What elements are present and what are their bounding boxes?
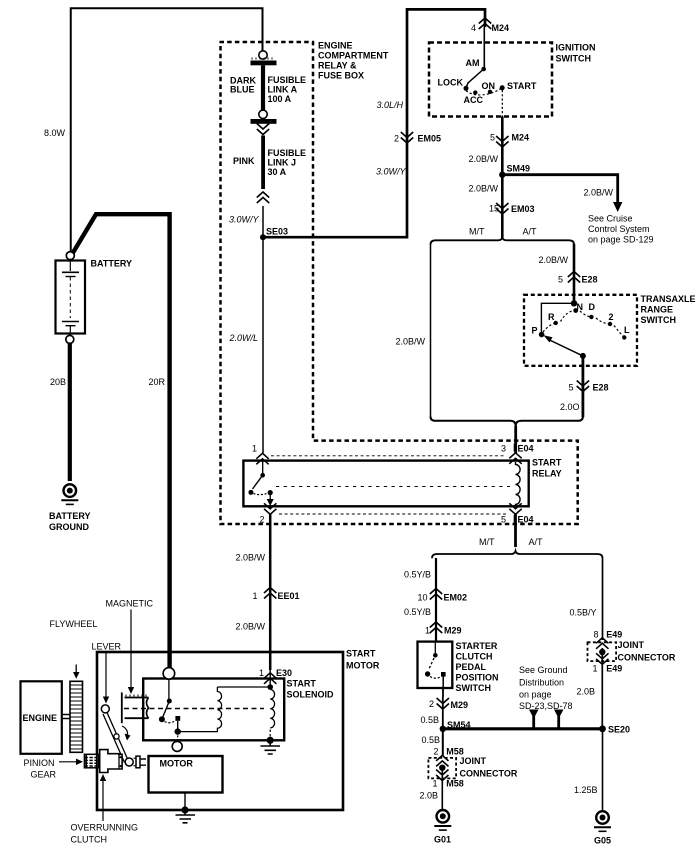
svg-text:R: R (548, 312, 555, 322)
svg-text:ENGINE: ENGINE (23, 713, 58, 723)
svg-text:3.0L/H: 3.0L/H (377, 100, 404, 110)
svg-text:POSITION: POSITION (456, 673, 499, 683)
svg-text:M29: M29 (451, 700, 469, 710)
svg-text:30 A: 30 A (268, 167, 287, 177)
svg-text:2.0O: 2.0O (560, 402, 580, 412)
svg-text:Control System: Control System (588, 224, 650, 234)
svg-text:RANGE: RANGE (641, 305, 674, 315)
wire SE03 to ignition feed (263, 9, 485, 237)
svg-text:0.5Y/B: 0.5Y/B (404, 570, 431, 580)
E04 connector dashed row bottom (279, 513, 506, 515)
svg-text:A/T: A/T (523, 227, 538, 237)
connector E04 pin 5 chevron (509, 503, 521, 514)
svg-text:GEAR: GEAR (31, 770, 57, 780)
svg-text:EM02: EM02 (444, 593, 468, 603)
svg-text:ENGINE: ENGINE (318, 41, 353, 51)
svg-text:FUSIBLE: FUSIBLE (268, 75, 307, 85)
pedal switch contacts (425, 642, 446, 688)
ground G01 (434, 810, 451, 830)
lever linkage (101, 705, 133, 766)
node SM49 (499, 172, 505, 178)
svg-text:20R: 20R (149, 377, 166, 387)
svg-text:START: START (346, 649, 376, 659)
wire SE20 to G05 1.25B (602, 729, 604, 812)
connector EE01 pin 1 (264, 588, 276, 599)
svg-text:5: 5 (490, 133, 495, 143)
svg-text:SWITCH: SWITCH (641, 315, 677, 325)
joint connector E49 dashed box (588, 642, 617, 661)
connector chevrons between links (257, 124, 269, 135)
wire pedal switch to M29 pin 2 (442, 688, 444, 729)
wire SM49 branch to cruise control (502, 175, 617, 203)
svg-text:1: 1 (253, 591, 258, 601)
svg-text:LINK A: LINK A (268, 85, 298, 95)
connector E28 pin 5 upper (568, 272, 580, 283)
svg-text:2.0B/W: 2.0B/W (584, 188, 614, 198)
start solenoid box (143, 679, 284, 741)
svg-text:A/T: A/T (529, 537, 544, 547)
svg-text:M/T: M/T (469, 227, 485, 237)
E04 connector dashed row top (271, 455, 506, 457)
svg-text:E04: E04 (518, 444, 534, 454)
transaxle range switch dashed box (524, 295, 637, 366)
wire A/T lower branch 0.5B/Y (602, 558, 604, 640)
M terminal circle (172, 741, 182, 751)
svg-text:MAGNETIC: MAGNETIC (106, 599, 154, 609)
svg-text:5: 5 (569, 383, 574, 393)
svg-text:EM05: EM05 (418, 134, 442, 144)
svg-text:START: START (532, 458, 562, 468)
svg-text:0.5B: 0.5B (422, 735, 441, 745)
engine compartment relay and fuse box dashed outline (220, 42, 578, 524)
clutch to motor coupling (134, 756, 147, 768)
svg-text:2.0B/W: 2.0B/W (539, 255, 569, 265)
svg-text:IGNITION: IGNITION (556, 43, 596, 53)
svg-text:RELAY &: RELAY & (318, 61, 357, 71)
connector E04 pin 3 chevron (509, 453, 521, 464)
svg-text:2: 2 (609, 312, 614, 322)
svg-text:M58: M58 (446, 747, 464, 757)
svg-text:Distribution: Distribution (519, 678, 564, 688)
B+ terminal circle (163, 668, 175, 680)
engine box (21, 681, 62, 754)
ground G05 (594, 811, 611, 831)
mechanical link plunger to coils dashed (124, 708, 264, 710)
svg-text:1: 1 (259, 668, 264, 678)
svg-text:E49: E49 (606, 664, 622, 674)
svg-text:2: 2 (429, 699, 434, 709)
svg-text:on page SD-129: on page SD-129 (588, 235, 654, 245)
svg-text:BATTERY: BATTERY (91, 259, 133, 269)
wire M/T branch 2.0B/W (430, 244, 432, 417)
svg-text:1: 1 (593, 664, 598, 674)
svg-text:G01: G01 (434, 835, 451, 845)
svg-text:ACC: ACC (464, 95, 484, 105)
svg-text:1.25B: 1.25B (574, 785, 598, 795)
motor box (149, 756, 223, 793)
svg-text:4: 4 (471, 23, 476, 33)
svg-text:L: L (624, 325, 630, 335)
svg-text:3: 3 (501, 444, 506, 454)
svg-text:SD-23,SD-78: SD-23,SD-78 (519, 701, 573, 711)
node SM54 (440, 726, 446, 732)
svg-text:2.0B: 2.0B (577, 687, 596, 697)
overrunning clutch block (100, 750, 122, 773)
svg-text:JOINT: JOINT (618, 640, 645, 650)
svg-text:P: P (532, 326, 538, 336)
svg-text:LOCK: LOCK (438, 78, 464, 88)
transaxle range switch contacts (539, 300, 627, 359)
svg-text:2: 2 (434, 747, 439, 757)
ignition switch dashed box (429, 43, 552, 117)
connector E49 pin 1 (596, 653, 608, 664)
ground distribution stub arrows (534, 716, 559, 729)
node SE20 (599, 725, 606, 732)
svg-text:1: 1 (252, 444, 257, 454)
relay mechanical link dashed (276, 486, 510, 488)
svg-text:SWITCH: SWITCH (456, 683, 492, 693)
connector M58 pin 1 (436, 770, 448, 781)
svg-text:E49: E49 (606, 630, 622, 640)
fusible link J 30A (261, 136, 265, 190)
connector EM05 pin 2 (401, 132, 413, 143)
svg-text:M/T: M/T (479, 537, 495, 547)
wire 20R battery to start motor (73, 214, 170, 668)
svg-text:EM03: EM03 (511, 204, 535, 214)
svg-text:RELAY: RELAY (532, 469, 562, 479)
svg-text:SE20: SE20 (608, 725, 630, 735)
wire ignition START output (501, 117, 504, 239)
svg-text:See Ground: See Ground (519, 665, 568, 675)
svg-text:PEDAL: PEDAL (456, 662, 487, 672)
svg-text:BLUE: BLUE (230, 85, 255, 95)
wire battery ground 20B (68, 344, 72, 482)
svg-text:E28: E28 (593, 383, 609, 393)
svg-text:3.0W/Y: 3.0W/Y (376, 167, 407, 177)
joint connector E49 internal (599, 649, 605, 655)
wire SM54 to M58 to G01 (442, 729, 444, 756)
svg-text:SM49: SM49 (507, 164, 531, 174)
svg-text:2: 2 (394, 134, 399, 144)
svg-text:SWITCH: SWITCH (556, 54, 592, 64)
wire transaxle output (582, 356, 585, 417)
magnetic plunger (122, 692, 149, 723)
svg-text:100 A: 100 A (268, 94, 292, 104)
svg-text:0.5B: 0.5B (421, 715, 440, 725)
wire battery positive feed 8.0W (71, 8, 263, 252)
engine to flywheel shaft (62, 715, 70, 719)
svg-text:8.0W: 8.0W (44, 128, 66, 138)
svg-text:5: 5 (501, 515, 506, 525)
svg-text:OVERRUNNING: OVERRUNNING (71, 823, 139, 833)
svg-text:STARTER: STARTER (456, 641, 498, 651)
connector E04 pin 2 chevron (264, 503, 276, 514)
svg-text:M24: M24 (512, 133, 530, 143)
connector E04 pin 1 (256, 453, 268, 464)
start relay box (243, 461, 528, 507)
connector M29 pin 2 (437, 698, 449, 709)
wire relay pin5 to second fanout (514, 514, 517, 547)
fusible link A 100A (251, 51, 277, 124)
svg-text:CONNECTOR: CONNECTOR (460, 769, 518, 779)
svg-text:0.5B/Y: 0.5B/Y (570, 608, 597, 618)
svg-text:1: 1 (425, 626, 430, 636)
svg-text:8: 8 (594, 630, 599, 640)
battery ground symbol (61, 484, 78, 504)
svg-text:10: 10 (418, 593, 428, 603)
ignition switch contacts (464, 67, 505, 117)
svg-text:E04: E04 (518, 515, 534, 525)
battery B1 (56, 252, 86, 344)
svg-text:2: 2 (260, 515, 265, 525)
joint connector M58 internal (439, 765, 445, 771)
svg-text:2.0W/L: 2.0W/L (229, 333, 259, 343)
svg-text:E28: E28 (582, 275, 598, 285)
svg-text:CONNECTOR: CONNECTOR (618, 653, 676, 663)
wire fanout bracket upper (431, 238, 575, 245)
solenoid pull-in coil (178, 687, 271, 732)
flywheel gear (70, 681, 83, 752)
svg-text:E30: E30 (276, 668, 292, 678)
svg-text:on page: on page (519, 690, 552, 700)
svg-text:PINION: PINION (24, 758, 55, 768)
wire E49 to SE20 2.0B (601, 648, 603, 729)
svg-text:0.5Y/B: 0.5Y/B (404, 607, 431, 617)
solenoid hold-in coil (267, 668, 274, 738)
svg-text:TRANSAXLE: TRANSAXLE (641, 294, 696, 304)
pinion gear block (84, 754, 98, 768)
flywheel arrow (75, 665, 77, 674)
connector M29 pin 1 (430, 622, 442, 633)
solenoid ground (261, 737, 281, 754)
svg-text:5: 5 (558, 275, 563, 285)
svg-text:START: START (287, 679, 317, 689)
svg-text:BATTERY: BATTERY (49, 511, 91, 521)
svg-text:2.0B/W: 2.0B/W (236, 622, 266, 632)
svg-text:G05: G05 (594, 836, 611, 846)
svg-text:GROUND: GROUND (49, 522, 89, 532)
connector E28 pin 5 lower (577, 381, 589, 392)
svg-text:SE03: SE03 (266, 227, 288, 237)
connector E30 pin 1 (264, 673, 276, 684)
svg-text:M58: M58 (446, 779, 464, 789)
connector EM02 pin 10 (430, 589, 442, 600)
svg-text:FUSIBLE: FUSIBLE (268, 148, 307, 158)
svg-text:2.0B/W: 2.0B/W (236, 553, 266, 563)
wire M/T lower branch 0.5Y/B (435, 558, 437, 642)
solenoid contact switch (159, 680, 181, 742)
wire merge bracket to start relay (431, 417, 583, 444)
svg-text:2.0B: 2.0B (420, 791, 439, 801)
connector M58 pin 2 (436, 755, 448, 766)
svg-text:2.0B/W: 2.0B/W (396, 337, 426, 347)
start motor outer box (97, 652, 343, 810)
svg-text:JOINT: JOINT (460, 756, 487, 766)
svg-text:15: 15 (489, 204, 499, 214)
relay switch contacts (248, 461, 273, 506)
svg-text:ON: ON (482, 81, 496, 91)
svg-text:PINK: PINK (233, 156, 255, 166)
svg-text:MOTOR: MOTOR (160, 759, 194, 769)
svg-text:EE01: EE01 (278, 591, 300, 601)
svg-text:LINK J: LINK J (268, 158, 297, 168)
svg-text:D: D (589, 302, 596, 312)
wire link J to SE03 (262, 206, 264, 236)
svg-text:LEVER: LEVER (92, 642, 122, 652)
wire fanout bracket lower (432, 551, 603, 558)
svg-text:3.0W/Y: 3.0W/Y (229, 215, 260, 225)
wire SM54 to SE20 ground bus (443, 727, 603, 730)
connector E49 pin 8 (596, 638, 608, 649)
svg-text:20B: 20B (50, 377, 66, 387)
wire relay pin2 to EE01 to E30 2.0B/W (269, 514, 272, 670)
node SE03 (260, 234, 266, 240)
relay coil (516, 462, 521, 506)
svg-text:CLUTCH: CLUTCH (456, 652, 493, 662)
svg-text:COMPARTMENT: COMPARTMENT (318, 51, 389, 61)
svg-text:FLYWHEEL: FLYWHEEL (50, 619, 98, 629)
svg-text:2.0B/W: 2.0B/W (469, 154, 499, 164)
motor ground (176, 793, 196, 823)
joint connector M58 dashed box (428, 758, 456, 779)
svg-text:MOTOR: MOTOR (346, 661, 380, 671)
svg-text:2.0B/W: 2.0B/W (469, 184, 499, 194)
svg-text:M24: M24 (492, 23, 510, 33)
wire SE03 to relay pin 1 2.0W/L (262, 240, 264, 453)
svg-text:FUSE BOX: FUSE BOX (318, 71, 364, 81)
svg-text:SOLENOID: SOLENOID (287, 690, 335, 700)
svg-text:START: START (507, 81, 537, 91)
svg-text:CLUTCH: CLUTCH (71, 835, 108, 845)
connector EM03 pin 15 (496, 203, 508, 214)
wire A/T branch to E28 (573, 244, 576, 304)
svg-text:N: N (577, 302, 584, 312)
connector M24 pin 5 (496, 136, 508, 147)
connector M24 pin 4 (479, 18, 491, 29)
svg-text:M29: M29 (444, 626, 462, 636)
svg-text:AM: AM (466, 58, 480, 68)
svg-text:1: 1 (433, 779, 438, 789)
starter clutch pedal position switch box (418, 642, 453, 688)
svg-text:See Cruise: See Cruise (588, 214, 633, 224)
